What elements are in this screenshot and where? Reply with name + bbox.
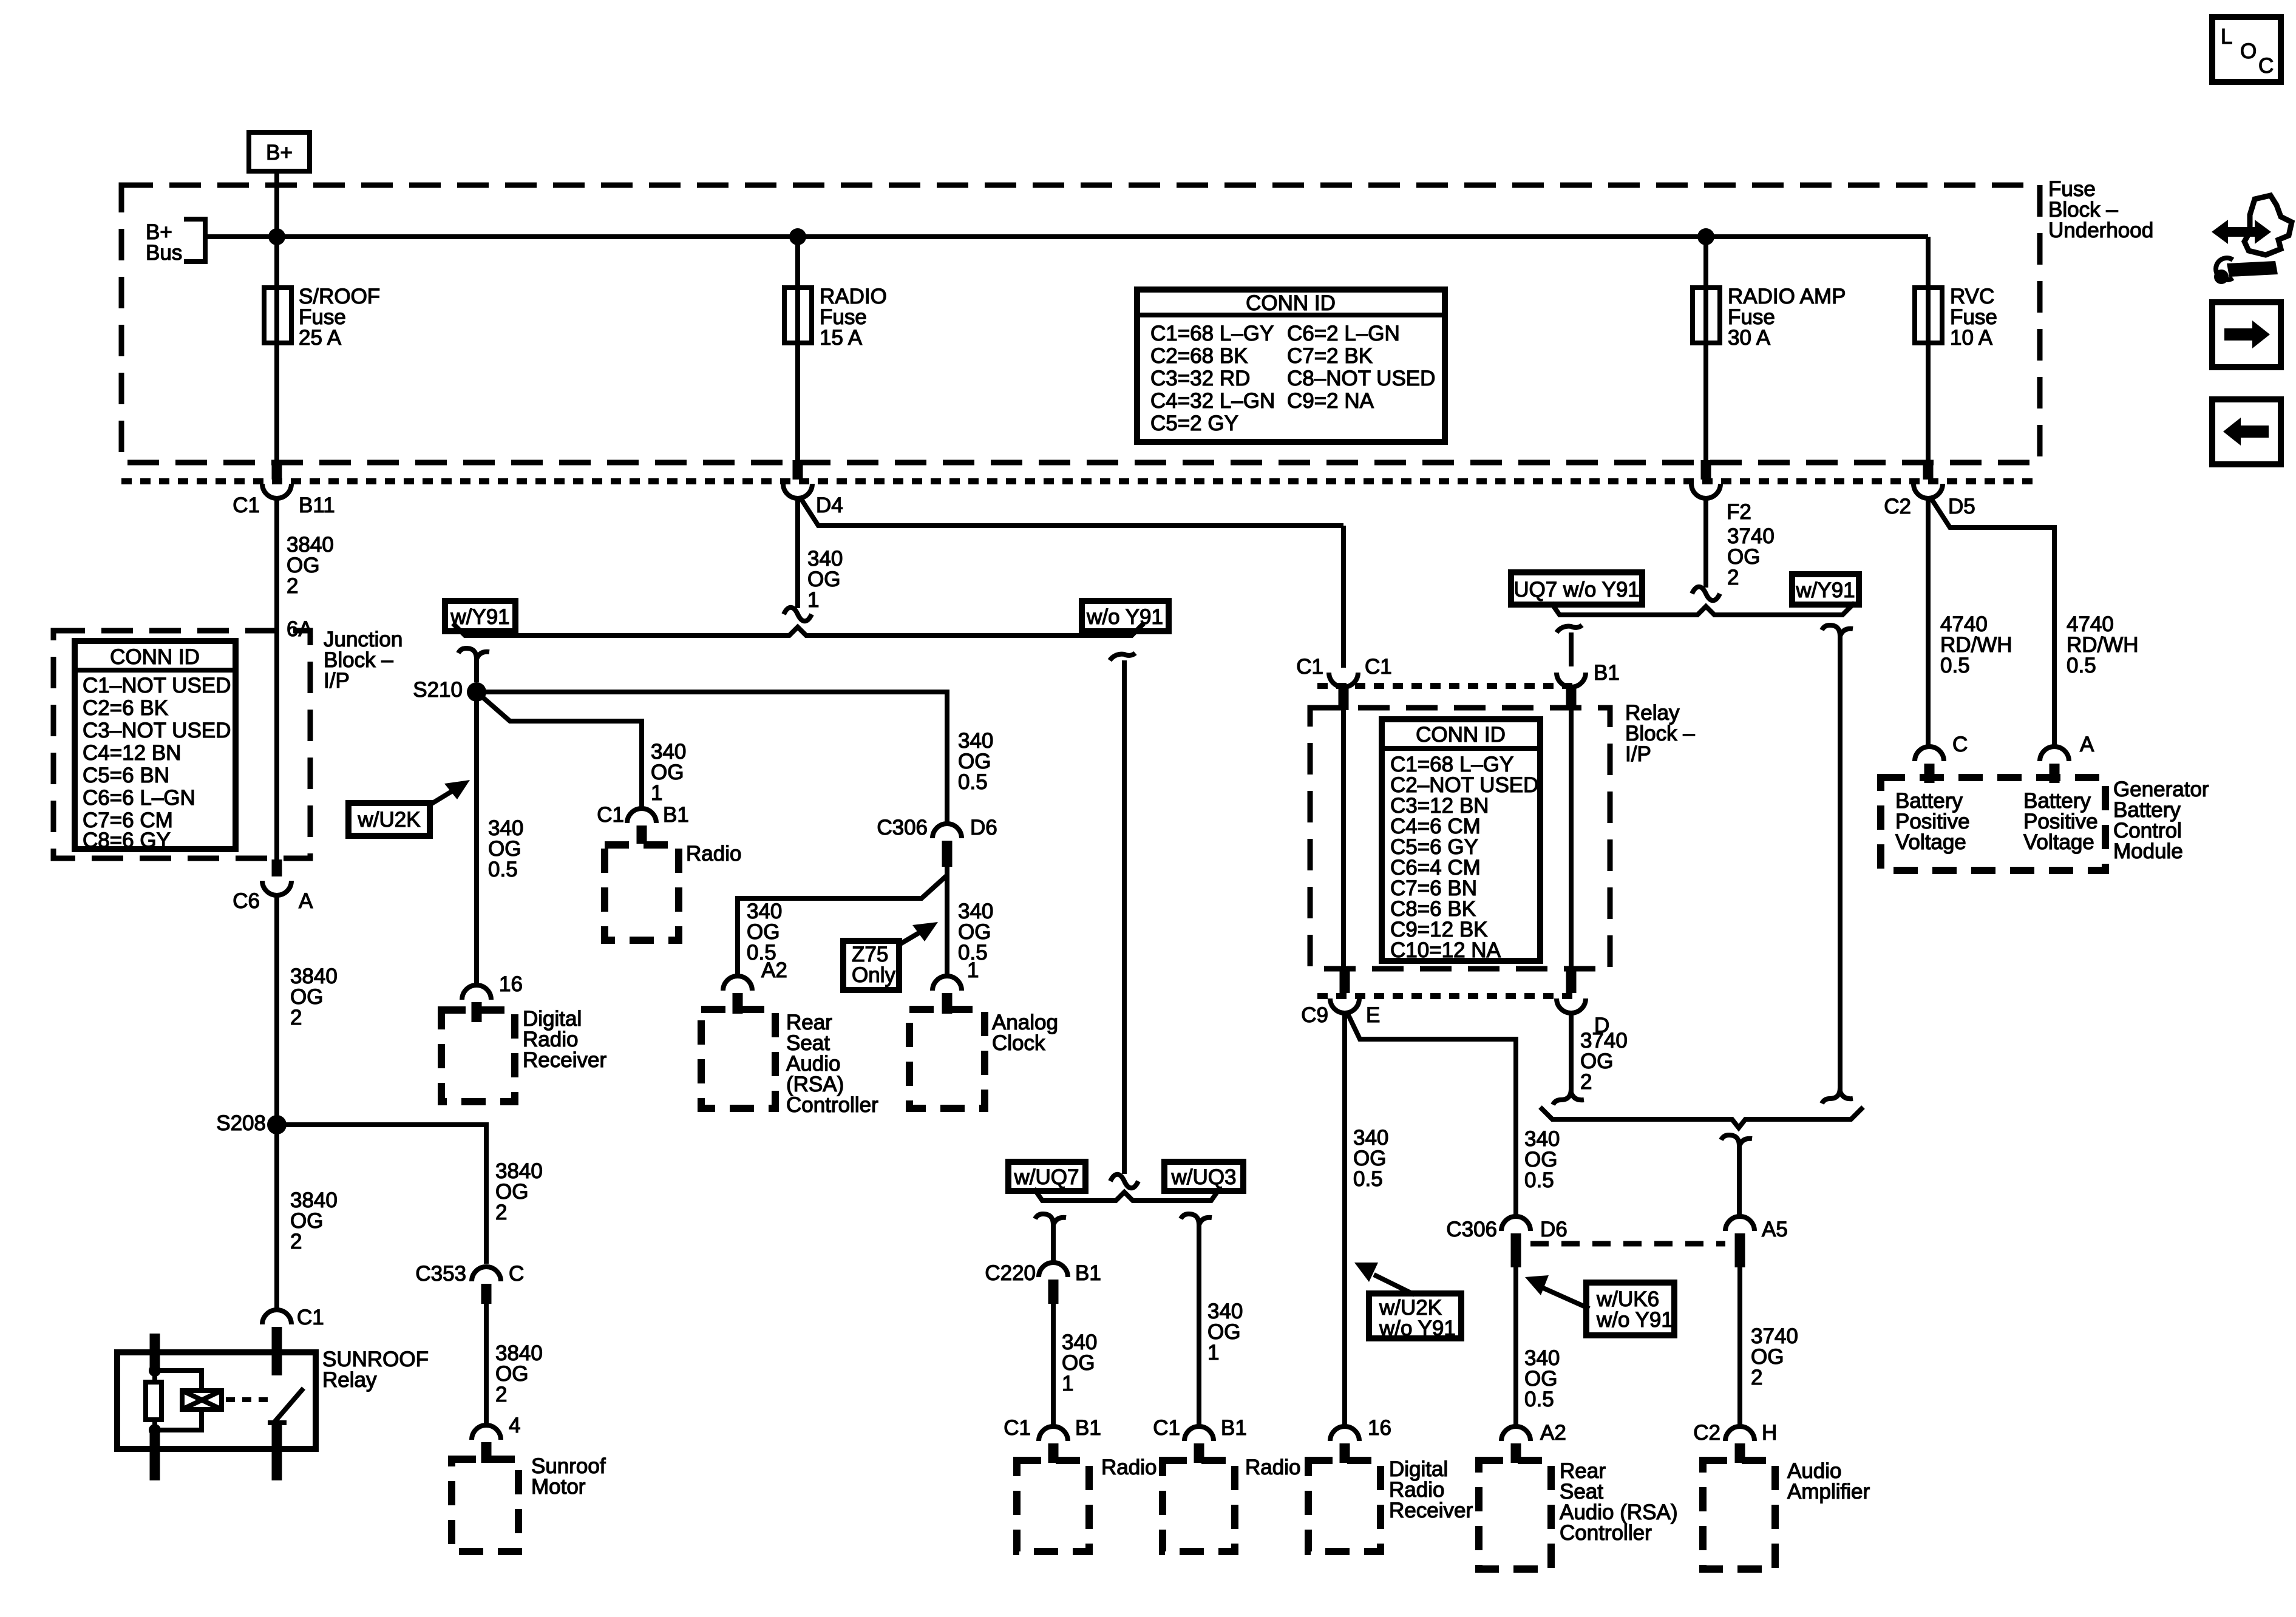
connector C306/D6 (first) bbox=[877, 816, 997, 867]
merge hook D bbox=[1553, 1089, 1584, 1105]
svg-text:25 A: 25 A bbox=[299, 326, 342, 350]
option merge line to A5 bbox=[1540, 1107, 1863, 1128]
branch hook w/Y91 bbox=[458, 648, 489, 682]
svg-text:C1: C1 bbox=[1365, 655, 1392, 679]
connector C1/B1 (radio w/UQ3) bbox=[1153, 1416, 1247, 1463]
svg-text:C6: C6 bbox=[233, 889, 260, 913]
svg-text:Only: Only bbox=[852, 963, 895, 987]
wire D drop to merge bbox=[1569, 1012, 1574, 1094]
label sunroof motor bbox=[531, 1454, 606, 1499]
digital radio receiver dashed box bbox=[441, 1010, 515, 1102]
forward arrow box bbox=[2212, 302, 2281, 367]
node coil bottom bbox=[149, 1424, 161, 1436]
CONN ID table (junction block) bbox=[75, 641, 236, 852]
radio dashed box (w/UQ7) bbox=[1017, 1460, 1089, 1551]
svg-text:A2: A2 bbox=[761, 958, 787, 982]
svg-text:O: O bbox=[2240, 39, 2257, 63]
node coil top bbox=[149, 1364, 161, 1377]
connector C2/D5 (RVC out) bbox=[1884, 460, 1975, 518]
svg-text:w/o Y91: w/o Y91 bbox=[1596, 1308, 1673, 1332]
svg-text:Receiver: Receiver bbox=[523, 1048, 606, 1072]
wire C220 to radio bbox=[1051, 1304, 1056, 1427]
svg-text:F2: F2 bbox=[1727, 500, 1751, 524]
wire RADIO AMP fuse drop bbox=[1703, 237, 1708, 460]
merge hook w/Y91 bbox=[1822, 1088, 1853, 1103]
svg-text:w/o Y91: w/o Y91 bbox=[1379, 1317, 1456, 1340]
wire relay block internal B1 to D bbox=[1569, 708, 1574, 971]
wire C9 drop to DRR 16 bbox=[1342, 1011, 1347, 1427]
svg-text:2: 2 bbox=[495, 1383, 507, 1406]
option split line w/UQ7 vs w/UQ3 bbox=[1034, 1188, 1220, 1201]
wire label 3840 OG 2 (S208 to C353) bbox=[495, 1159, 543, 1224]
w/Y91 option box bbox=[445, 601, 515, 631]
audio amplifier dashed box bbox=[1703, 1460, 1775, 1569]
w/UK6 w/o Y91 option box with arrow bbox=[1525, 1275, 1674, 1335]
svg-text:0.5: 0.5 bbox=[958, 770, 988, 794]
svg-text:A: A bbox=[2080, 733, 2094, 756]
connector A2 (RSA controller, bottom) bbox=[1501, 1421, 1566, 1463]
svg-text:Receiver: Receiver bbox=[1389, 1499, 1473, 1522]
label digital radio receiver bbox=[523, 1007, 606, 1072]
dotted pass-through connector row bbox=[121, 478, 2040, 484]
svg-text:C7=2 BK: C7=2 BK bbox=[1287, 344, 1373, 368]
label analog clock bbox=[992, 1011, 1058, 1055]
wire C drop to sunroof motor bbox=[484, 1304, 489, 1424]
svg-text:16: 16 bbox=[1368, 1416, 1391, 1440]
wire D6 drop to RSA A2 bbox=[1513, 1267, 1518, 1427]
svg-text:Radio: Radio bbox=[686, 842, 741, 866]
svg-text:C6=6 L–GN: C6=6 L–GN bbox=[83, 786, 195, 810]
svg-text:30 A: 30 A bbox=[1728, 326, 1771, 350]
svg-text:w/UQ3: w/UQ3 bbox=[1171, 1165, 1237, 1189]
wire RVC fuse drop bbox=[1926, 237, 1931, 460]
svg-text:Clock: Clock bbox=[992, 1031, 1045, 1055]
svg-text:C1–NOT USED: C1–NOT USED bbox=[83, 674, 231, 697]
svg-text:C306: C306 bbox=[1446, 1218, 1497, 1241]
svg-text:A: A bbox=[299, 889, 313, 913]
wire label 340 OG 0.5 (C9) bbox=[1353, 1126, 1388, 1191]
svg-text:0.5: 0.5 bbox=[488, 858, 518, 881]
node bus/RADIO junction bbox=[789, 228, 806, 245]
svg-text:C1: C1 bbox=[1004, 1416, 1031, 1440]
node S208 bbox=[216, 1111, 287, 1135]
svg-text:CONN ID: CONN ID bbox=[110, 645, 200, 669]
svg-text:2: 2 bbox=[290, 1006, 302, 1029]
svg-text:B1: B1 bbox=[1594, 661, 1620, 685]
svg-text:w/U2K: w/U2K bbox=[357, 808, 420, 832]
wire A5 drop to audio amplifier bbox=[1737, 1267, 1742, 1427]
svg-text:C3–NOT USED: C3–NOT USED bbox=[83, 719, 231, 742]
svg-text:1: 1 bbox=[807, 588, 819, 612]
svg-text:C2: C2 bbox=[1884, 495, 1911, 518]
connector D4 (RADIO out) bbox=[783, 460, 843, 517]
svg-text:D6: D6 bbox=[970, 816, 997, 839]
wire relay block internal C1 to C9 bbox=[1341, 708, 1346, 971]
svg-text:Motor: Motor bbox=[531, 1475, 586, 1499]
svg-text:I/P: I/P bbox=[324, 669, 350, 693]
wire label 340 OG 1 (C220 to radio) bbox=[1062, 1331, 1097, 1395]
wire S210 branch to radio C1/B1 bbox=[477, 692, 642, 807]
LOC reference box bbox=[2212, 17, 2281, 82]
svg-text:Controller: Controller bbox=[786, 1093, 878, 1117]
hand with double arrow icon bbox=[2212, 195, 2292, 255]
svg-text:C9=2 NA: C9=2 NA bbox=[1287, 389, 1374, 413]
svg-text:B1: B1 bbox=[1075, 1416, 1101, 1440]
wire label 340 OG 1 (D4) bbox=[807, 547, 843, 612]
connector 1 (analog clock) bbox=[932, 958, 979, 1014]
svg-text:C9: C9 bbox=[1301, 1003, 1328, 1027]
sunroof motor dashed box bbox=[452, 1459, 518, 1551]
connector A (battery positive voltage) bbox=[2040, 733, 2094, 783]
svg-text:0.5: 0.5 bbox=[1524, 1388, 1554, 1411]
svg-text:B1: B1 bbox=[1221, 1416, 1247, 1440]
svg-text:16: 16 bbox=[499, 972, 523, 996]
connector C1 (sunroof relay) bbox=[262, 1306, 324, 1373]
relay coil bottom pin bbox=[150, 1428, 160, 1480]
wire label 340 OG 0.5 (E to C306) bbox=[1524, 1127, 1560, 1192]
wire label 3740 OG 2 (A5 to amp) bbox=[1751, 1324, 1798, 1389]
wire label 340 OG 0.5 (D6 to A2) bbox=[1524, 1346, 1560, 1411]
svg-text:CONN ID: CONN ID bbox=[1416, 723, 1506, 747]
wire B11 drop to junction block bbox=[274, 498, 279, 859]
svg-text:w/o Y91: w/o Y91 bbox=[1086, 605, 1163, 629]
wire coil leads bbox=[152, 1371, 157, 1431]
svg-text:A5: A5 bbox=[1762, 1218, 1788, 1241]
connector C353/C bbox=[415, 1262, 524, 1304]
connector C9/E (relay block bottom) bbox=[1301, 971, 1380, 1027]
relay coil top pin bbox=[150, 1334, 160, 1373]
label battery positive voltage (left) bbox=[1895, 789, 1970, 854]
connector C2/H (audio amplifier) bbox=[1693, 1421, 1777, 1463]
wire D4 branch to relay block bbox=[800, 497, 1343, 526]
fuse S/ROOF 25A bbox=[264, 285, 380, 350]
svg-text:15 A: 15 A bbox=[820, 326, 863, 350]
svg-text:S208: S208 bbox=[216, 1111, 266, 1135]
merge output hook bbox=[1721, 1135, 1752, 1219]
svg-text:I/P: I/P bbox=[1625, 742, 1651, 766]
connector A5 (audio amplifier feed) bbox=[1725, 1216, 1788, 1267]
label digital radio receiver (bottom) bbox=[1389, 1457, 1473, 1522]
svg-text:D4: D4 bbox=[816, 493, 843, 517]
w/U2K option box with arrow bbox=[348, 780, 470, 836]
wire label 340 OG 1 (w/UQ3 radio) bbox=[1207, 1300, 1243, 1364]
connector D (relay block bottom) bbox=[1557, 971, 1609, 1037]
svg-text:C5=2 GY: C5=2 GY bbox=[1150, 412, 1238, 435]
w/Y91 option box (relay) bbox=[1792, 574, 1859, 605]
wire D4 feed to relay block C1 bbox=[1341, 526, 1346, 668]
svg-text:Amplifier: Amplifier bbox=[1787, 1480, 1870, 1503]
svg-text:C1: C1 bbox=[597, 803, 624, 827]
wire D4 drop end squiggle bbox=[795, 498, 800, 608]
fuse RADIO AMP 30A bbox=[1693, 285, 1846, 350]
wire label 340 OG 0.5 (S210 to C306) bbox=[958, 729, 993, 794]
svg-text:4: 4 bbox=[509, 1414, 520, 1437]
branch hook w/UQ7 bbox=[1035, 1214, 1066, 1261]
wire S210 branch right to C306 bbox=[477, 692, 947, 822]
label audio amplifier bbox=[1787, 1459, 1870, 1503]
svg-text:0.5: 0.5 bbox=[2067, 654, 2096, 677]
svg-text:0.5: 0.5 bbox=[1353, 1167, 1383, 1191]
dotted connector row (relay block top) bbox=[1317, 683, 1578, 689]
svg-text:2: 2 bbox=[1727, 566, 1739, 589]
B+ Bus tap bracket bbox=[146, 219, 205, 265]
svg-text:w/UQ7: w/UQ7 bbox=[1014, 1165, 1079, 1189]
svg-text:2: 2 bbox=[287, 574, 298, 598]
svg-text:1: 1 bbox=[651, 781, 662, 805]
wire S208 drop to relay C1 bbox=[274, 1125, 279, 1309]
wire A drop to S208 bbox=[274, 895, 279, 1125]
wire RADIO fuse drop bbox=[795, 237, 800, 460]
connector B1 (relay block top) bbox=[1557, 661, 1620, 710]
svg-text:C: C bbox=[1952, 733, 1968, 756]
junction block I/P dashed box bbox=[53, 631, 310, 858]
label battery positive voltage (right) bbox=[2023, 789, 2098, 854]
w/o Y91 option box bbox=[1082, 601, 1169, 631]
wire label 340 OG 0.5 (to analog clock) bbox=[958, 900, 993, 964]
svg-text:C1: C1 bbox=[1296, 655, 1323, 679]
label relay block I/P bbox=[1625, 701, 1695, 766]
svg-text:Radio: Radio bbox=[1101, 1456, 1156, 1479]
wire D6 branch to RSA A2 bbox=[738, 875, 947, 975]
svg-text:C2=6 BK: C2=6 BK bbox=[83, 696, 168, 720]
label generator battery control module bbox=[2113, 778, 2209, 863]
svg-text:2: 2 bbox=[1580, 1070, 1592, 1094]
svg-text:B+: B+ bbox=[266, 141, 293, 164]
svg-text:H: H bbox=[1762, 1421, 1777, 1445]
back arrow box bbox=[2212, 399, 2281, 464]
wire w/o Y91 end squiggle bbox=[1110, 1175, 1138, 1188]
w/U2K w/o Y91 option box with arrow bbox=[1354, 1263, 1461, 1340]
fuse block label bbox=[2048, 177, 2153, 242]
wire solenoid branch bbox=[155, 1371, 202, 1430]
connector 16 (digital radio receiver) bbox=[462, 972, 523, 1022]
svg-text:Controller: Controller bbox=[1560, 1521, 1652, 1545]
svg-text:C353: C353 bbox=[415, 1262, 466, 1286]
svg-text:C1: C1 bbox=[233, 493, 260, 517]
svg-text:C3=32 RD: C3=32 RD bbox=[1150, 367, 1250, 390]
relay solenoid crossed box bbox=[182, 1391, 222, 1409]
connector C306/D6 (second) bbox=[1446, 1216, 1567, 1267]
relay actuator dashed link bbox=[226, 1397, 269, 1402]
wire label 340 OG 1 (S210 to radio) bbox=[651, 740, 686, 805]
svg-text:1: 1 bbox=[967, 958, 979, 982]
battery feed B+ symbol bbox=[249, 132, 310, 171]
svg-text:C: C bbox=[2258, 54, 2274, 78]
svg-text:Radio: Radio bbox=[1245, 1456, 1300, 1479]
wire D5 branch to battery A bbox=[1930, 497, 2054, 748]
svg-text:2: 2 bbox=[290, 1230, 302, 1253]
generator battery control module dashed box bbox=[1881, 778, 2105, 870]
svg-text:B1: B1 bbox=[663, 803, 689, 827]
connector F2 (RADIO AMP out) bbox=[1691, 460, 1751, 524]
connector C220/B1 bbox=[985, 1261, 1101, 1304]
svg-text:w/Y91: w/Y91 bbox=[450, 605, 509, 629]
svg-text:C1=68 L–GY: C1=68 L–GY bbox=[1150, 322, 1274, 345]
CONN ID table (fuse block) bbox=[1137, 290, 1445, 442]
svg-text:C8–NOT USED: C8–NOT USED bbox=[1287, 367, 1435, 390]
branch hook w/o Y91 bbox=[1110, 653, 1135, 1174]
svg-text:A2: A2 bbox=[1540, 1421, 1566, 1445]
svg-text:1: 1 bbox=[1062, 1372, 1073, 1395]
connector E diagonal branch bbox=[1347, 1011, 1516, 1215]
branch hook w/UQ3 bbox=[1181, 1214, 1212, 1427]
svg-text:10 A: 10 A bbox=[1950, 326, 1993, 350]
CONN ID table (relay block) bbox=[1382, 719, 1540, 962]
wire label 3840 OG 2 (A to S208) bbox=[290, 964, 338, 1029]
wire B+ drop bbox=[274, 171, 279, 460]
dashed wire D6 to A5 bbox=[1530, 1241, 1725, 1247]
svg-text:Bus: Bus bbox=[146, 241, 182, 265]
svg-text:1: 1 bbox=[1207, 1341, 1219, 1364]
analog clock dashed box bbox=[909, 1009, 985, 1108]
UQ7 w/o Y91 option box bbox=[1511, 572, 1642, 605]
svg-text:Voltage: Voltage bbox=[2023, 830, 2094, 854]
dotted connector row (relay block bottom) bbox=[1317, 993, 1578, 999]
wire C2 drop to battery C bbox=[1926, 498, 1931, 748]
label rear seat audio (RSA) controller bbox=[786, 1011, 878, 1117]
relay switch blade bbox=[268, 1334, 304, 1480]
svg-text:CONN ID: CONN ID bbox=[1246, 291, 1336, 315]
svg-text:Relay: Relay bbox=[322, 1368, 377, 1392]
svg-text:C2: C2 bbox=[1693, 1421, 1720, 1445]
svg-text:C8=6 GY: C8=6 GY bbox=[83, 829, 171, 852]
wire label 3840 OG 2 (C to sunroof motor) bbox=[495, 1341, 543, 1406]
rear seat audio controller dashed box (bottom) bbox=[1479, 1460, 1551, 1569]
wire S208 branch to C353 bbox=[277, 1125, 486, 1264]
wire label 340 OG 0.5 (to RSA A2) bbox=[747, 900, 782, 964]
svg-text:E: E bbox=[1366, 1003, 1380, 1027]
connector C1/B1 (radio, w/Y91) bbox=[597, 803, 689, 844]
fuse block underhood dashed box bbox=[121, 185, 2040, 463]
option split line w/Y91 vs w/o Y91 bbox=[453, 623, 1144, 636]
node bus/RADIO-AMP junction bbox=[1697, 228, 1714, 245]
wire label 4740 RD/WH 0.5 (C2 to C) bbox=[1940, 612, 2012, 677]
svg-text:C4=12 BN: C4=12 BN bbox=[83, 741, 181, 765]
fuse RVC 10A bbox=[1915, 285, 1997, 350]
wire label 3840 OG 2 (S208 to relay) bbox=[290, 1188, 338, 1253]
wrench icon bbox=[2214, 258, 2278, 284]
svg-text:C: C bbox=[509, 1262, 524, 1286]
svg-text:C1: C1 bbox=[1153, 1416, 1180, 1440]
node bus/S-ROOF junction bbox=[268, 228, 285, 245]
w/UQ3 option box bbox=[1164, 1162, 1243, 1191]
Z75 Only option box with arrow bbox=[843, 922, 938, 990]
connector C6/A (junction block out) bbox=[233, 859, 313, 913]
connector C1/B11 (S/ROOF out) bbox=[233, 460, 335, 517]
branch hook UQ7 bbox=[1557, 625, 1582, 666]
svg-text:C4=32 L–GN: C4=32 L–GN bbox=[1150, 389, 1275, 413]
rear seat audio controller dashed box bbox=[701, 1009, 775, 1108]
svg-text:w/Y91: w/Y91 bbox=[1795, 578, 1855, 602]
svg-text:B1: B1 bbox=[1075, 1261, 1101, 1285]
wire label 340 OG 0.5 (S210 to DRR) bbox=[488, 816, 523, 881]
wire B+ bus bbox=[205, 234, 1928, 239]
digital radio receiver dashed box (bottom) bbox=[1308, 1460, 1381, 1551]
relay coil resistor bbox=[146, 1382, 161, 1420]
svg-text:D5: D5 bbox=[1948, 495, 1975, 518]
connector A2 (RSA controller) bbox=[723, 958, 787, 1014]
w/UQ7 option box bbox=[1008, 1162, 1085, 1191]
svg-text:L: L bbox=[2221, 25, 2232, 49]
svg-text:0.5: 0.5 bbox=[1524, 1168, 1554, 1192]
svg-text:D6: D6 bbox=[1540, 1218, 1567, 1241]
svg-text:C10=12 NA: C10=12 NA bbox=[1390, 938, 1501, 962]
label SUNROOF Relay bbox=[322, 1347, 429, 1392]
svg-text:C306: C306 bbox=[877, 816, 928, 839]
label rear seat audio (RSA) controller (bottom) bbox=[1560, 1459, 1678, 1545]
wire w/Y91 branch long drop bbox=[1822, 625, 1853, 1093]
radio dashed box (w/Y91) bbox=[605, 845, 679, 940]
svg-text:C5=6 BN: C5=6 BN bbox=[83, 764, 169, 787]
connector C1/C1 (relay block top) bbox=[1296, 655, 1392, 710]
wire S210 to digital radio receiver bbox=[474, 692, 479, 984]
connector pin 4 (sunroof motor) bbox=[472, 1414, 520, 1463]
wire label 3740 OG 2 (D) bbox=[1580, 1029, 1628, 1094]
radio dashed box (w/UQ3) bbox=[1163, 1460, 1235, 1551]
connector C1/B1 (radio w/UQ7) bbox=[1004, 1416, 1101, 1463]
wire F2 drop end squiggle bbox=[1703, 498, 1708, 588]
svg-text:Module: Module bbox=[2113, 839, 2183, 863]
svg-text:C6=2 L–GN: C6=2 L–GN bbox=[1287, 322, 1400, 345]
fuse RADIO 15A bbox=[784, 285, 887, 350]
svg-text:C2=68 BK: C2=68 BK bbox=[1150, 344, 1248, 368]
svg-text:C1: C1 bbox=[297, 1306, 324, 1329]
relay block I/P dashed box bbox=[1310, 708, 1610, 969]
connector 16 (digital radio receiver, bottom) bbox=[1330, 1416, 1391, 1463]
svg-text:S210: S210 bbox=[413, 678, 463, 702]
wire label 3840 OG 2 (B11) bbox=[287, 533, 334, 598]
wire label 4740 RD/WH 0.5 (D5 to A) bbox=[2067, 612, 2139, 677]
svg-text:B11: B11 bbox=[299, 493, 335, 517]
option split line UQ7 w/o Y91 vs w/Y91 bbox=[1551, 603, 1855, 615]
wire label 3740 OG 2 (F2) bbox=[1727, 524, 1775, 589]
svg-text:UQ7 w/o Y91: UQ7 w/o Y91 bbox=[1513, 578, 1640, 602]
wire D6 to analog clock bbox=[945, 867, 949, 975]
svg-text:Voltage: Voltage bbox=[1895, 830, 1966, 854]
svg-text:2: 2 bbox=[1751, 1366, 1762, 1389]
node S210 bbox=[413, 678, 486, 702]
svg-text:Underhood: Underhood bbox=[2048, 219, 2153, 242]
svg-text:2: 2 bbox=[495, 1201, 507, 1224]
connector C (battery positive voltage) bbox=[1915, 733, 1968, 783]
svg-text:C220: C220 bbox=[985, 1261, 1036, 1285]
label junction block I/P bbox=[324, 628, 402, 693]
svg-text:0.5: 0.5 bbox=[1940, 654, 1970, 677]
sunroof relay box bbox=[117, 1352, 316, 1449]
